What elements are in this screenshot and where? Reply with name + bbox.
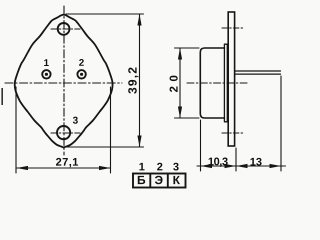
dimension 10,3/13 extension line middle bbox=[235, 148, 237, 171]
arrow 20 bottom bbox=[178, 107, 182, 119]
side view pin lead bbox=[235, 71, 281, 74]
pin 1 (lead circle) bbox=[42, 70, 50, 78]
side view can rim bbox=[224, 44, 227, 122]
dimension 39,2 extension line top bbox=[66, 13, 144, 15]
dimension 13 extension line right bbox=[280, 76, 282, 171]
dimension 39,2 extension line bottom bbox=[67, 146, 144, 148]
arrow 13 left bbox=[236, 164, 248, 168]
dimension 27,1 extension line right bbox=[110, 87, 112, 173]
side view centerline bottom hole bbox=[222, 132, 244, 134]
pinout table box bbox=[133, 174, 186, 188]
dimension label 13 bbox=[250, 158, 261, 166]
dimension 27,1 line bbox=[17, 167, 111, 169]
side view mounting flange bbox=[228, 12, 234, 146]
horizontal centerline front view bbox=[5, 82, 122, 84]
dimension 39,2 line bbox=[139, 15, 141, 147]
pinout table column number 3 bbox=[173, 163, 178, 171]
pin label 3 (case) bbox=[73, 117, 78, 124]
dimension label 10,3 bbox=[209, 158, 228, 167]
arrow 10,3 right bbox=[225, 164, 237, 168]
arrowheads bbox=[17, 14, 282, 170]
side view centerline middle bbox=[187, 82, 247, 84]
pin label 1 bbox=[44, 59, 49, 66]
package outline front view (TO-3 diamond flange) bbox=[15, 15, 113, 148]
pinout label К (collector) bbox=[173, 176, 180, 184]
side view centerline top hole bbox=[222, 27, 244, 29]
dimension label 20 bbox=[170, 76, 178, 92]
dimension 20 line bbox=[179, 49, 181, 118]
pinout table column number 2 bbox=[157, 163, 162, 171]
dimension 27,1 extension line left bbox=[15, 87, 17, 173]
mounting hole top bbox=[58, 23, 70, 35]
crosshair bottom hole bbox=[51, 132, 80, 134]
arrow 10,3 left bbox=[201, 164, 213, 168]
arrow 27,1 right bbox=[99, 166, 111, 170]
pin label 2 bbox=[79, 59, 84, 66]
side view can body bbox=[200, 48, 224, 118]
arrow 27,1 left bbox=[17, 166, 29, 170]
vertical centerline front view bbox=[63, 6, 65, 155]
dimension 20 extension line bottom bbox=[175, 117, 200, 119]
pinout table column number 1 bbox=[139, 163, 144, 171]
dimension label 39,2 bbox=[128, 68, 138, 94]
pin 2 (lead circle) bbox=[77, 70, 85, 78]
scan artifact left edge bbox=[1, 88, 3, 105]
dimension 10,3/13 line bbox=[197, 165, 286, 167]
crosshair top hole bbox=[51, 28, 80, 30]
arrow 13 right bbox=[270, 164, 282, 168]
dimension 20 extension line top bbox=[175, 47, 200, 49]
arrow 39,2 bottom bbox=[137, 136, 141, 148]
pinout label Э (emitter) bbox=[155, 176, 163, 185]
dimension 10,3 extension line left bbox=[200, 120, 202, 171]
arrow 20 top bbox=[178, 48, 182, 60]
arrow 39,2 top bbox=[137, 14, 141, 26]
dimension label 27,1 bbox=[56, 158, 78, 167]
pinout label Б (base) bbox=[138, 176, 145, 184]
mounting hole bottom bbox=[57, 126, 70, 139]
